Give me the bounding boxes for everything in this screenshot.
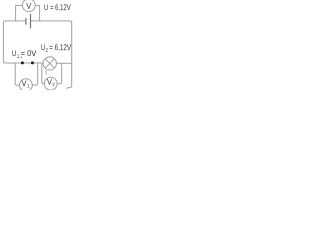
voltmeter U (circle)	[22, 0, 35, 12]
label U1 = 0V	[12, 50, 15, 56]
wire: voltmeter U right lead	[35, 5, 39, 21]
wire: voltmeter V2 left lead	[42, 63, 45, 84]
battery B1 long plate (positive)	[30, 14, 32, 28]
wire: voltmeter U left lead	[16, 5, 23, 21]
voltmeter V2 letter V	[47, 79, 52, 85]
wire: main loop right: top rail from battery plus, right edge down, bottom hook	[31, 21, 72, 89]
switch S1 contact dot right	[31, 61, 34, 64]
wire: lamp right lead to right edge	[56, 62, 71, 64]
voltmeter V2 (circle)	[44, 77, 57, 90]
label U = 6,12V	[44, 4, 47, 10]
lamp L1 base tick	[45, 70, 47, 74]
lamp L1 (circle)	[43, 57, 56, 70]
voltmeter V2 subscript 2	[52, 83, 54, 86]
voltmeter V1 subscript 1	[27, 84, 29, 87]
wire: main loop left: top rail from battery minus, left edge down, bottom wire to lamp left lead	[3, 21, 43, 63]
wire: voltmeter V2 right lead	[57, 63, 62, 83]
switch S1 handle nub	[21, 57, 22, 58]
wire: voltmeter V1 left lead	[15, 63, 19, 85]
lamp L1 cross	[45, 59, 54, 68]
battery B1 short plate (negative)	[25, 18, 27, 25]
switch S1 contact dot left	[21, 61, 24, 64]
voltmeter V1 (circle)	[20, 79, 33, 92]
voltmeter V1 letter V	[22, 80, 27, 86]
wire: voltmeter V1 right lead	[32, 63, 37, 85]
label U2 = 6,12V	[41, 44, 44, 50]
voltmeter U letter V	[26, 3, 31, 9]
